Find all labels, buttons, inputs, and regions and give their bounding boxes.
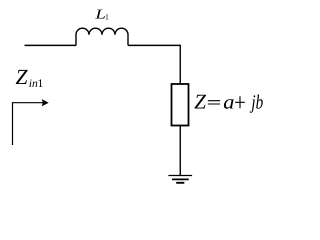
wire left horizontal <box>25 44 77 46</box>
input arrow <box>13 103 43 145</box>
wire vertical from box to ground <box>179 126 181 176</box>
svg-text:Z: Z <box>194 90 206 114</box>
label L1 <box>94 7 109 22</box>
svg-text:jb: jb <box>249 91 263 113</box>
arrowhead <box>42 99 49 106</box>
wire top horizontal right of inductor <box>128 44 180 46</box>
svg-text:1: 1 <box>38 78 44 90</box>
wire vertical to impedance box <box>179 45 181 84</box>
impedance box Z <box>172 84 189 126</box>
label Z_in1 <box>16 65 44 90</box>
label Z = a + jb <box>194 90 263 114</box>
ground <box>168 176 192 183</box>
svg-text:a: a <box>223 91 234 113</box>
inductor L1 <box>76 28 128 45</box>
svg-text:1: 1 <box>105 12 109 21</box>
svg-text:Z: Z <box>16 65 29 89</box>
